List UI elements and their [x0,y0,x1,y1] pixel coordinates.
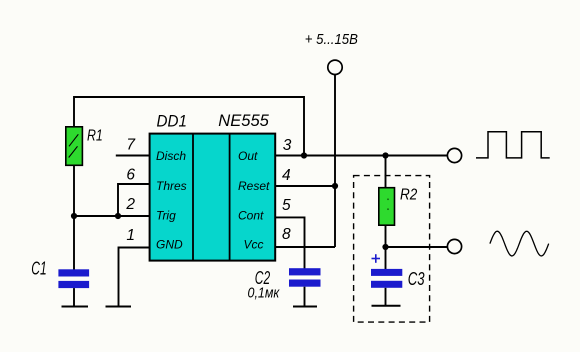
op-amp/IC DD1 NE555 body [150,134,276,261]
svg-text:Out: Out [238,149,258,163]
wire feedback Out to R1 top [74,97,304,156]
polarity plus of C3 [372,254,381,263]
svg-text:Disch: Disch [156,149,186,163]
svg-text:+ 5...15В: + 5...15В [305,31,358,48]
wire Reset pin 4 line [275,185,335,187]
capacitor C2 [289,268,321,287]
svg-text:3: 3 [283,137,292,154]
square wave icon [476,132,550,158]
svg-text:R2: R2 [400,187,417,204]
node junction R1/C1/Trig [71,213,77,219]
wire GND pin 1 to ground [119,248,151,307]
ground under pin 1 [106,306,132,308]
svg-text:6: 6 [126,166,135,183]
wire Cont pin 5 to C2 [275,217,304,269]
svg-text:4: 4 [282,167,291,184]
wire C3 top [385,247,387,270]
resistor R1 [66,127,83,166]
wire Trig node down to C1 [73,216,75,270]
node junction R2 branch on Out line [382,152,388,158]
wire power vertical [334,75,336,247]
svg-text:R1: R1 [87,128,103,145]
terminal sine output [447,239,461,253]
svg-text:8: 8 [282,226,291,243]
svg-text:DD1: DD1 [157,112,187,130]
svg-text:Thres: Thres [156,179,187,193]
wire Disch stub pin 7 [116,155,150,157]
svg-text:Vcc: Vcc [244,238,264,252]
svg-text:5: 5 [282,197,291,214]
capacitor C3 [371,269,402,288]
svg-text:7: 7 [126,136,136,153]
wire C3 stem [385,288,387,306]
node junction feedback on Out line [301,152,307,158]
svg-text:NE555: NE555 [218,111,269,130]
svg-text:Reset: Reset [238,179,270,193]
capacitor C1 [58,269,89,288]
wire R1 bottom to Trig node [73,165,75,216]
wire C1 bottom stem [73,288,75,306]
wire Vcc pin 8 line [275,246,335,248]
ground under C1 [62,306,89,308]
resistor R2 [379,188,395,226]
svg-text:0,1мк: 0,1мк [248,285,281,302]
wire Out pin 3 line [275,155,447,157]
node junction power on Reset line [332,183,338,189]
sine wave icon [490,231,549,256]
svg-text:1: 1 [126,227,135,244]
wire sine output line [386,246,448,248]
terminal square-wave output [447,148,461,162]
svg-text:C3: C3 [408,268,425,289]
node junction R2/C3/output [382,244,388,250]
ground under C2 [293,306,317,308]
wire Trig line to IC pin 2 [74,215,150,217]
node junction Thres riser on Trig line [115,213,121,219]
ground under C3 [372,305,401,307]
wire Out line down to R2 [385,156,387,189]
svg-text:2: 2 [125,196,135,213]
svg-text:C1: C1 [31,258,46,278]
svg-text:Cont: Cont [238,208,264,222]
wire C2 stem [304,287,306,307]
dashed box R2 C3 [354,176,430,323]
wire Thres riser [118,184,150,216]
wire R2 bottom to node [385,225,387,247]
terminal power supply [328,60,342,74]
svg-text:Trig: Trig [156,208,176,222]
svg-text:GND: GND [156,238,183,252]
